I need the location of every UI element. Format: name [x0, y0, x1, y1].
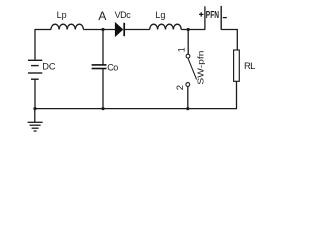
junction dot switch branch: [187, 28, 190, 31]
svg-text:VDc: VDc: [115, 10, 132, 20]
plus sign: [199, 12, 203, 16]
node A junction dot: [101, 28, 104, 31]
battery DC plate1 long: [28, 59, 42, 61]
wire junction down to switch contact 1: [187, 30, 189, 55]
svg-text:Lp: Lp: [57, 10, 67, 20]
wire RL to bottom rail: [236, 81, 238, 108]
battery DC plate2 short: [31, 65, 39, 67]
wire node A down to Co: [102, 30, 104, 65]
inductor Lp: [51, 24, 83, 29]
wire left vertical to battery: [34, 29, 36, 60]
battery DC plate3 long: [28, 72, 42, 74]
svg-text:PFN: PFN: [206, 10, 219, 21]
wire battery to bottom rail: [34, 79, 36, 108]
wire diode to Lg: [125, 29, 150, 31]
minus sign: [223, 17, 227, 19]
bottom rail wire: [35, 108, 237, 110]
svg-text:Co: Co: [107, 62, 118, 72]
ground stem: [34, 109, 36, 123]
wire Lg to PFN left bar: [181, 29, 205, 31]
svg-text:1: 1: [177, 47, 187, 52]
wire top-left horizontal before Lp: [35, 29, 51, 31]
wire Lp to diode: [83, 29, 115, 31]
svg-text:2: 2: [175, 85, 186, 90]
wire Co to bottom rail: [102, 69, 104, 109]
svg-text:SW-pfn: SW-pfn: [196, 50, 206, 84]
ground bar4: [34, 130, 37, 132]
diode VDc triangle: [115, 23, 122, 36]
svg-text:DC: DC: [42, 61, 56, 71]
svg-text:RL: RL: [244, 61, 255, 72]
junction dot switch-rail: [186, 107, 189, 110]
capacitor Co top plate: [92, 64, 107, 66]
svg-text:Lg: Lg: [155, 10, 165, 20]
capacitor Co bottom plate: [92, 68, 107, 70]
ground bar2: [30, 124, 41, 126]
junction dot battery-rail: [33, 107, 36, 110]
battery DC plate4 short: [31, 78, 39, 80]
switch blade: [188, 58, 197, 79]
inductor Lg: [150, 24, 182, 29]
wire contact 2 to bottom rail: [187, 87, 189, 109]
ground bar1: [28, 121, 43, 123]
PFN right terminal bar: [220, 6, 222, 30]
PFN left terminal bar: [204, 6, 206, 30]
ground bar3: [32, 127, 39, 129]
svg-text:A: A: [98, 9, 106, 23]
diode VDc cathode bar: [123, 23, 125, 36]
wire PFN to right corner and down to RL: [221, 30, 237, 51]
switch contact 2 circle: [186, 83, 190, 87]
resistor RL body: [234, 50, 240, 81]
switch SW-pfn contact 1 circle: [186, 54, 190, 58]
junction dot Co-rail: [101, 107, 104, 110]
